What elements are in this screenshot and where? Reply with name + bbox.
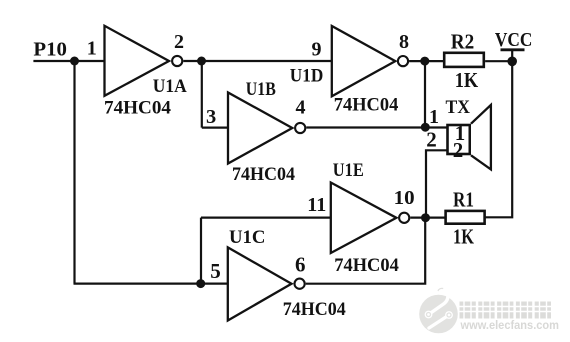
svg-text:74HC04: 74HC04 xyxy=(334,95,399,116)
wire to U1B input pin 3 xyxy=(202,126,228,128)
junction node U1D output xyxy=(420,57,429,66)
svg-text:5: 5 xyxy=(210,259,221,283)
svg-text:R2: R2 xyxy=(451,30,475,54)
wire U1E output to R1 xyxy=(410,217,445,219)
svg-text:1K: 1K xyxy=(453,225,475,249)
svg-text:74HC04: 74HC04 xyxy=(283,299,346,320)
wire R2 to VCC xyxy=(485,60,512,62)
watermark logo xyxy=(419,288,458,333)
resistor R2 xyxy=(444,53,484,67)
inverter U1A xyxy=(105,26,183,96)
wire left vertical from P10 node down xyxy=(73,61,75,284)
svg-text:R1: R1 xyxy=(453,187,474,211)
svg-text:1: 1 xyxy=(429,106,439,128)
wire U1C output up to lower node xyxy=(306,218,426,284)
svg-text:www.elecfans.com: www.elecfans.com xyxy=(460,320,559,332)
svg-text:U1A: U1A xyxy=(153,76,187,97)
wire vertical up to U1E input row xyxy=(200,218,202,284)
svg-text:74HC04: 74HC04 xyxy=(104,97,172,118)
watermark text xyxy=(459,301,552,319)
svg-text:TX: TX xyxy=(446,97,471,118)
svg-text:3: 3 xyxy=(206,106,216,128)
svg-text:74HC04: 74HC04 xyxy=(232,164,295,185)
svg-text:8: 8 xyxy=(399,31,409,53)
wire U1D output to R2 xyxy=(409,60,443,62)
wire P10 to U1A input xyxy=(33,60,104,62)
wire vertical down to TX pin1 node xyxy=(424,61,426,127)
svg-text:9: 9 xyxy=(312,38,322,60)
junction node pin5 branch xyxy=(196,279,205,288)
junction node at P10 xyxy=(70,57,79,66)
svg-text:U1D: U1D xyxy=(290,66,324,87)
svg-text:2: 2 xyxy=(426,128,437,152)
svg-text:2: 2 xyxy=(453,138,464,162)
svg-text:U1E: U1E xyxy=(333,160,364,181)
junction node U1A output xyxy=(197,57,206,66)
inverter U1B xyxy=(228,93,305,164)
wire TX pin2 to lower node xyxy=(426,150,447,217)
svg-text:U1C: U1C xyxy=(229,227,266,248)
wire U1B output to TX pin1 node xyxy=(306,126,446,128)
transducer TX xyxy=(448,105,491,169)
inverter U1E xyxy=(331,183,410,254)
svg-text:U1B: U1B xyxy=(246,79,276,100)
svg-text:74HC04: 74HC04 xyxy=(334,255,399,276)
svg-text:VCC: VCC xyxy=(495,29,533,51)
svg-text:P10: P10 xyxy=(33,39,67,61)
inverter U1C xyxy=(228,247,305,320)
wire U1A output to U1D input xyxy=(183,60,331,62)
inverter U1D xyxy=(332,26,408,96)
wire vertical down to U1B input xyxy=(201,61,203,128)
wire to U1E input pin 11 xyxy=(201,217,331,219)
svg-text:1K: 1K xyxy=(455,68,479,92)
junction node TX pin1 xyxy=(421,123,430,132)
svg-text:10: 10 xyxy=(394,188,415,209)
svg-text:1: 1 xyxy=(87,38,97,60)
resistor R1 xyxy=(446,211,485,224)
svg-text:6: 6 xyxy=(295,253,306,277)
svg-text:11: 11 xyxy=(307,195,326,216)
junction node VCC xyxy=(507,57,517,67)
wire VCC vertical down to R1 xyxy=(486,61,513,217)
wire bottom horizontal to U1C input xyxy=(74,283,228,285)
junction node U1E output xyxy=(421,213,430,222)
svg-text:4: 4 xyxy=(296,97,306,119)
power VCC symbol xyxy=(501,50,525,61)
svg-text:2: 2 xyxy=(174,31,184,53)
